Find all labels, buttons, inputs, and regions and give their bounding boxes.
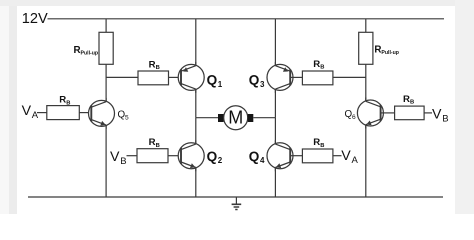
svg-text:R: R: [149, 59, 156, 70]
svg-text:Q: Q: [207, 73, 218, 88]
svg-text:Q: Q: [249, 149, 260, 164]
svg-text:Pull-up: Pull-up: [81, 51, 99, 57]
svg-text:B: B: [320, 143, 324, 149]
svg-text:B: B: [156, 65, 160, 71]
svg-text:M: M: [228, 107, 243, 127]
svg-text:V: V: [22, 103, 32, 119]
svg-text:V: V: [432, 106, 442, 122]
svg-text:2: 2: [218, 156, 223, 165]
svg-text:V: V: [341, 148, 351, 164]
svg-text:6: 6: [352, 114, 356, 121]
svg-text:3: 3: [260, 80, 265, 89]
svg-text:B: B: [320, 65, 324, 71]
svg-text:R: R: [59, 95, 66, 106]
svg-text:R: R: [149, 137, 156, 148]
svg-text:V: V: [110, 149, 120, 165]
svg-text:R: R: [313, 59, 320, 70]
svg-text:Pull-up: Pull-up: [381, 50, 399, 56]
svg-text:A: A: [32, 110, 39, 121]
svg-text:B: B: [66, 100, 70, 106]
svg-text:Q: Q: [207, 149, 218, 164]
svg-text:R: R: [403, 94, 410, 105]
svg-text:B: B: [442, 113, 448, 124]
svg-text:R: R: [313, 137, 320, 148]
svg-text:5: 5: [125, 114, 129, 121]
svg-text:1: 1: [218, 80, 223, 89]
svg-text:B: B: [120, 156, 126, 167]
svg-text:B: B: [156, 143, 160, 149]
svg-text:B: B: [410, 100, 414, 106]
svg-text:12V: 12V: [22, 11, 48, 27]
svg-text:4: 4: [260, 156, 265, 165]
svg-text:A: A: [352, 155, 359, 166]
svg-text:Q: Q: [249, 73, 260, 88]
